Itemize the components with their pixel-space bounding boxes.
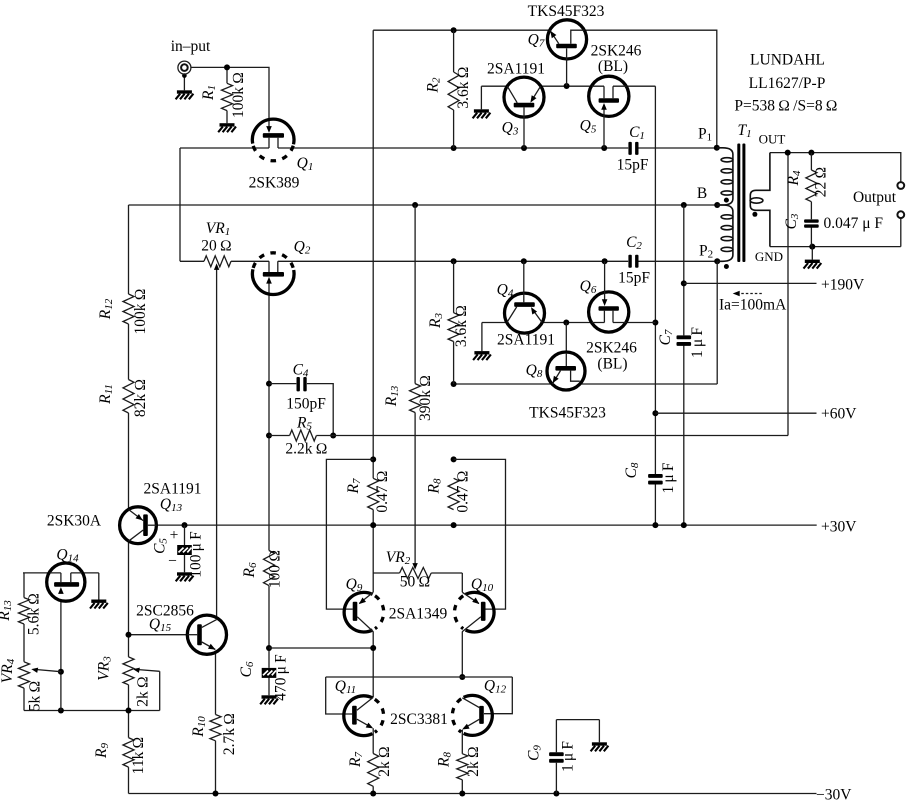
resistor R9 11k — [93, 737, 147, 775]
svg-text:+: + — [170, 527, 179, 544]
node Q6 gate / C2 junction — [602, 258, 608, 264]
wire +30V rail — [146, 524, 817, 526]
node C4/R5 right junction — [330, 433, 336, 439]
wire VR4 wiper arm — [31, 668, 61, 673]
node Q8 base junction — [563, 320, 569, 326]
node R7 top junction — [370, 456, 376, 462]
wire Q4 Q8 Q6 row — [482, 322, 656, 324]
node C5 junction — [182, 522, 188, 528]
svg-text:2k Ω: 2k Ω — [135, 676, 152, 707]
label Ia=100mA — [719, 297, 787, 314]
transistor Q9 2SA1349 — [344, 576, 384, 632]
svg-text:1 μ F: 1 μ F — [660, 462, 677, 493]
transformer T1 core — [737, 122, 751, 262]
node Q15 base junction — [126, 632, 132, 638]
svg-text:2.2k Ω: 2.2k Ω — [285, 441, 327, 458]
node C3 bottom junction — [809, 244, 815, 250]
svg-text:0.047 μ F: 0.047 μ F — [824, 215, 884, 232]
node C4 junction — [266, 381, 272, 387]
svg-text:1 μ F: 1 μ F — [689, 327, 706, 358]
wire R4 C3 leads — [810, 153, 812, 247]
resistor R8 0.47 — [426, 470, 472, 512]
node VR4 wiper junction — [58, 669, 64, 675]
node input/R1 junction — [224, 64, 230, 70]
capacitor C2 15pF — [618, 234, 650, 287]
svg-text:+190V: +190V — [821, 277, 865, 294]
svg-text:15pF: 15pF — [618, 270, 650, 287]
svg-text:100 Ω: 100 Ω — [267, 550, 284, 588]
wire P2 down leg — [716, 261, 718, 384]
wire R3 leads — [453, 261, 455, 384]
label P2 — [699, 243, 713, 261]
wire Q15 emitter to R10 to -30V — [215, 650, 217, 794]
node R7-2k bottom junction — [370, 791, 376, 797]
svg-text:150pF: 150pF — [286, 396, 326, 413]
capacitor C7 1uF — [657, 327, 706, 358]
svg-text:11k Ω: 11k Ω — [130, 737, 147, 775]
ground under input jack — [176, 90, 194, 99]
svg-text:−: − — [168, 553, 177, 570]
label GND — [755, 249, 783, 264]
svg-text:2SK389: 2SK389 — [249, 175, 300, 192]
ground under R1 — [218, 123, 236, 132]
wire jack ground stem — [182, 73, 187, 90]
wire Q14 left column R13-5.6k VR4 — [23, 573, 25, 711]
transformer T1 secondary winding — [750, 153, 770, 247]
wire Q3 collector to ground — [480, 86, 482, 109]
transistor Q12 2SC3381 — [390, 678, 506, 736]
wire Q3 Q7 Q5 row — [481, 85, 655, 87]
node T1 secondary phase dot — [752, 212, 757, 217]
transistor Q15 2SC2856 — [136, 603, 226, 655]
svg-text:GND: GND — [755, 249, 783, 264]
resistor R1 100k — [200, 72, 247, 118]
wire Q8 base — [565, 323, 567, 354]
wire Q12 emitter to R8-2k to -30V — [461, 730, 463, 794]
svg-text:2SA1349: 2SA1349 — [389, 606, 448, 623]
node C9 bottom junction — [553, 791, 559, 797]
transistor Q13 2SA1191 — [120, 481, 202, 544]
ground near Q3 — [473, 109, 491, 118]
node R3 bottom junction — [451, 381, 457, 387]
node Q5 gate junction — [601, 145, 607, 151]
svg-text:470 μ F: 470 μ F — [273, 654, 290, 701]
resistor R2 3.6k — [425, 66, 473, 110]
svg-text:B: B — [697, 185, 707, 202]
node +60V junction — [652, 410, 658, 416]
transformer T1 primary winding B-P2 — [717, 205, 733, 261]
svg-text:0.47 Ω: 0.47 Ω — [455, 470, 472, 512]
svg-text:2SA1191: 2SA1191 — [497, 332, 555, 349]
wire R5 feedback line to OUT — [269, 153, 788, 436]
svg-text:390k Ω: 390k Ω — [417, 375, 434, 421]
svg-text:82k Ω: 82k Ω — [132, 379, 149, 417]
node Q9 collector junction — [370, 645, 376, 651]
svg-text:100k Ω: 100k Ω — [230, 72, 247, 118]
svg-text:1 μ F: 1 μ F — [560, 741, 577, 772]
label LUNDAHL — [750, 52, 825, 69]
resistor R7 0.47 — [345, 470, 391, 512]
ground under C6 — [260, 695, 278, 704]
node P1 terminal — [714, 145, 720, 151]
svg-text:2SA1191: 2SA1191 — [144, 481, 202, 498]
svg-text:+60V: +60V — [821, 406, 857, 423]
wire -30V rail — [129, 793, 817, 795]
wire R6 R9 bottom row y648-710 — [24, 710, 160, 712]
wire B line — [129, 204, 718, 206]
svg-text:2.7k Ω: 2.7k Ω — [221, 713, 238, 755]
svg-text:2k Ω: 2k Ω — [376, 746, 393, 777]
svg-text:100k Ω: 100k Ω — [132, 288, 149, 334]
node C6 junction — [266, 645, 272, 651]
wire C9 bracket — [556, 720, 599, 794]
jfet Q6 2SK246 — [580, 261, 638, 372]
resistor R7 2k — [347, 746, 393, 786]
label OUT — [759, 132, 786, 147]
svg-text:TKS45F323: TKS45F323 — [529, 405, 606, 422]
node Q14 gate bottom junction — [58, 708, 64, 714]
wire Q14 top row — [23, 572, 99, 574]
node Q7 base junction — [564, 83, 570, 89]
svg-text:in–put: in–put — [171, 38, 211, 55]
wire Q4 collector to ground — [481, 323, 483, 352]
resistor R6 100 — [241, 550, 284, 588]
node T1 primary phase dot upper — [724, 198, 729, 203]
label P=538/S=8 — [734, 98, 837, 115]
wire VR1 wiper to Q15 collector — [214, 263, 219, 619]
node B to C7 column junction — [681, 202, 687, 208]
potentiometer VR1 20 — [201, 220, 232, 267]
resistor R12 100k — [97, 288, 149, 334]
wire VR3 wiper arm — [133, 668, 160, 711]
wire Q9 base bracket — [326, 459, 373, 609]
wire R13-390k VR2 wiper column — [412, 205, 417, 570]
svg-text:20 Ω: 20 Ω — [201, 238, 232, 255]
svg-text:Ia=100mA: Ia=100mA — [719, 297, 787, 314]
capacitor C4 150pF — [286, 362, 326, 413]
transistor Q10 2SA1349 — [389, 576, 494, 632]
transistor Q3 2SA1191 — [487, 61, 545, 149]
svg-text:50 Ω: 50 Ω — [400, 574, 431, 591]
potentiometer VR2 50 — [386, 549, 431, 591]
potentiometer VR3 2k — [96, 656, 152, 707]
svg-text:0.47 Ω: 0.47 Ω — [374, 470, 391, 512]
transistor Q8 TKS45F323 — [526, 352, 606, 422]
wire R12 R11 column — [128, 205, 130, 794]
node R4 top junction — [808, 150, 814, 156]
node Q11 Q12 base junction — [459, 674, 465, 680]
node R7 bottom junction — [370, 522, 376, 528]
wire C5 leads — [184, 525, 186, 572]
svg-text:100 μ F: 100 μ F — [188, 531, 205, 578]
wire output bottom row — [770, 218, 901, 247]
transistor Q4 2SA1191 — [497, 261, 555, 348]
node R9 top junction — [126, 708, 132, 714]
node R3 top junction — [451, 258, 457, 264]
label +30V — [821, 519, 857, 536]
node T1 primary phase dot lower — [724, 264, 729, 269]
potentiometer VR4 5k — [0, 658, 44, 711]
label LL1627/P-P — [749, 75, 826, 92]
svg-text:2SK246: 2SK246 — [591, 43, 642, 60]
jfet Q2 2SK389 — [252, 239, 310, 295]
ground near C9 — [591, 742, 609, 751]
capacitor C9 1uF — [526, 741, 577, 772]
wire Q15 base — [129, 634, 198, 636]
capacitor C3 0.047uF — [783, 213, 883, 232]
node B to R13-390k junction — [412, 202, 418, 208]
svg-text:2k Ω: 2k Ω — [465, 746, 482, 777]
svg-text:2SA1191: 2SA1191 — [487, 61, 545, 78]
wire y648 row to Q9 collector — [269, 647, 373, 649]
resistor R13 5.6k — [0, 593, 43, 635]
wire input to R1 and Q1 gate — [191, 67, 269, 129]
wire C7 column — [683, 205, 685, 525]
svg-text:5k Ω: 5k Ω — [27, 681, 44, 712]
wire VR2 ends — [373, 573, 462, 592]
capacitor C5 100uF — [152, 527, 205, 578]
svg-text:TKS45F323: TKS45F323 — [528, 3, 605, 20]
wire Q2 gate / C4 / R5 / R6 / C6 column — [268, 282, 270, 696]
resistor R5 2.2k — [285, 415, 327, 458]
ground near Q4 — [473, 351, 491, 360]
label P1 — [698, 126, 712, 144]
capacitor C1 15pF — [617, 124, 649, 174]
wire C3 ground stem — [811, 247, 813, 260]
capacitor C8 1uF — [623, 462, 677, 493]
svg-text:15pF: 15pF — [617, 157, 649, 174]
wire top rail P1 net — [373, 30, 717, 148]
node R5 left junction — [266, 433, 272, 439]
svg-text:R13: R13 — [0, 600, 14, 622]
node C8 bottom junction — [652, 522, 658, 528]
svg-text:(BL): (BL) — [598, 58, 628, 75]
node +190V junction — [681, 280, 687, 286]
wire Q10 collector leg — [461, 632, 463, 678]
wire Q10 base bracket — [454, 459, 506, 609]
node R2 top junction — [451, 27, 457, 33]
svg-text:5.6k Ω: 5.6k Ω — [26, 593, 43, 635]
wire C4 branch — [269, 384, 333, 436]
resistor R8 2k — [436, 746, 483, 780]
jfet Q1 2SK389 — [249, 119, 314, 191]
svg-text:22 Ω: 22 Ω — [813, 167, 830, 198]
label +190V — [821, 277, 865, 294]
jfet Q5 2SK246 — [580, 43, 642, 149]
wire Q14 gate — [60, 592, 62, 711]
label +60V — [821, 406, 857, 423]
svg-text:2SK246: 2SK246 — [586, 340, 637, 357]
wire +190V rail — [684, 282, 817, 284]
svg-text:Output: Output — [853, 189, 897, 206]
wire Q5 drain column x655 — [654, 86, 656, 525]
wire Ia current arrow — [733, 291, 762, 297]
node Q4 base junction — [521, 258, 527, 264]
svg-text:OUT: OUT — [759, 132, 786, 147]
transformer T1 primary winding P1-B — [717, 148, 733, 205]
node R8-2k bottom junction — [459, 791, 465, 797]
resistor R13 390k — [383, 375, 434, 421]
svg-text:(BL): (BL) — [597, 356, 627, 373]
node R10 bottom junction — [213, 791, 219, 797]
resistor R4 22 — [785, 167, 830, 202]
wire Q8 emitter row y384 — [454, 383, 718, 385]
wire Q1 source left + to VR1 — [180, 148, 269, 261]
capacitor C6 470uF — [238, 654, 290, 701]
node R2 bottom junction — [451, 145, 457, 151]
node C7 bottom junction — [681, 522, 687, 528]
label Output — [853, 189, 897, 206]
label -30V — [816, 787, 852, 804]
wire R2 leads — [453, 30, 455, 148]
ground near Q14 — [90, 600, 108, 609]
ground under C3 — [804, 260, 822, 269]
resistor R3 3.6k — [427, 305, 470, 347]
label B — [697, 185, 707, 202]
node R8 top junction — [451, 456, 457, 462]
wire +60V rail — [655, 412, 816, 414]
jfet Q14 2SK30A — [47, 513, 102, 602]
wire P1 net horizontal — [278, 147, 717, 149]
node OUT junction — [785, 150, 791, 156]
svg-text:3.6k Ω: 3.6k Ω — [455, 66, 472, 108]
wire Q14 right ground leg — [98, 573, 100, 600]
node Q3 base junction — [521, 145, 527, 151]
output terminal lower — [897, 211, 904, 218]
node R8 bottom junction — [451, 522, 457, 528]
svg-text:LL1627/P-P: LL1627/P-P — [749, 75, 826, 92]
node Q6 drain junction — [652, 320, 658, 326]
wire OUT row — [770, 153, 901, 183]
svg-text:LUNDAHL: LUNDAHL — [750, 52, 825, 69]
input jack — [171, 38, 211, 74]
svg-text:P=538 Ω /S=8 Ω: P=538 Ω /S=8 Ω — [734, 98, 837, 115]
transistor Q11 2SC3381 — [335, 678, 384, 736]
wire left drive column x373 — [372, 30, 374, 793]
svg-text:2SC3381: 2SC3381 — [390, 711, 448, 728]
output terminal upper — [897, 182, 904, 189]
ground under C5 — [176, 572, 194, 581]
svg-text:2SC2856: 2SC2856 — [136, 603, 194, 620]
resistor R10 2.7k — [190, 713, 238, 755]
wire Q11 Q12 base box — [326, 677, 513, 714]
wire R1 leads — [226, 67, 228, 123]
resistor R11 82k — [97, 379, 149, 417]
wire P2 net horizontal — [180, 260, 717, 262]
svg-text:+30V: +30V — [821, 519, 857, 536]
svg-text:−30V: −30V — [816, 787, 852, 804]
transistor Q7 TKS45F323 — [528, 3, 605, 86]
node B terminal — [714, 202, 720, 208]
node P2 terminal — [714, 258, 720, 264]
svg-text:2SK30A: 2SK30A — [47, 513, 102, 530]
svg-text:3.6k Ω: 3.6k Ω — [453, 305, 470, 347]
